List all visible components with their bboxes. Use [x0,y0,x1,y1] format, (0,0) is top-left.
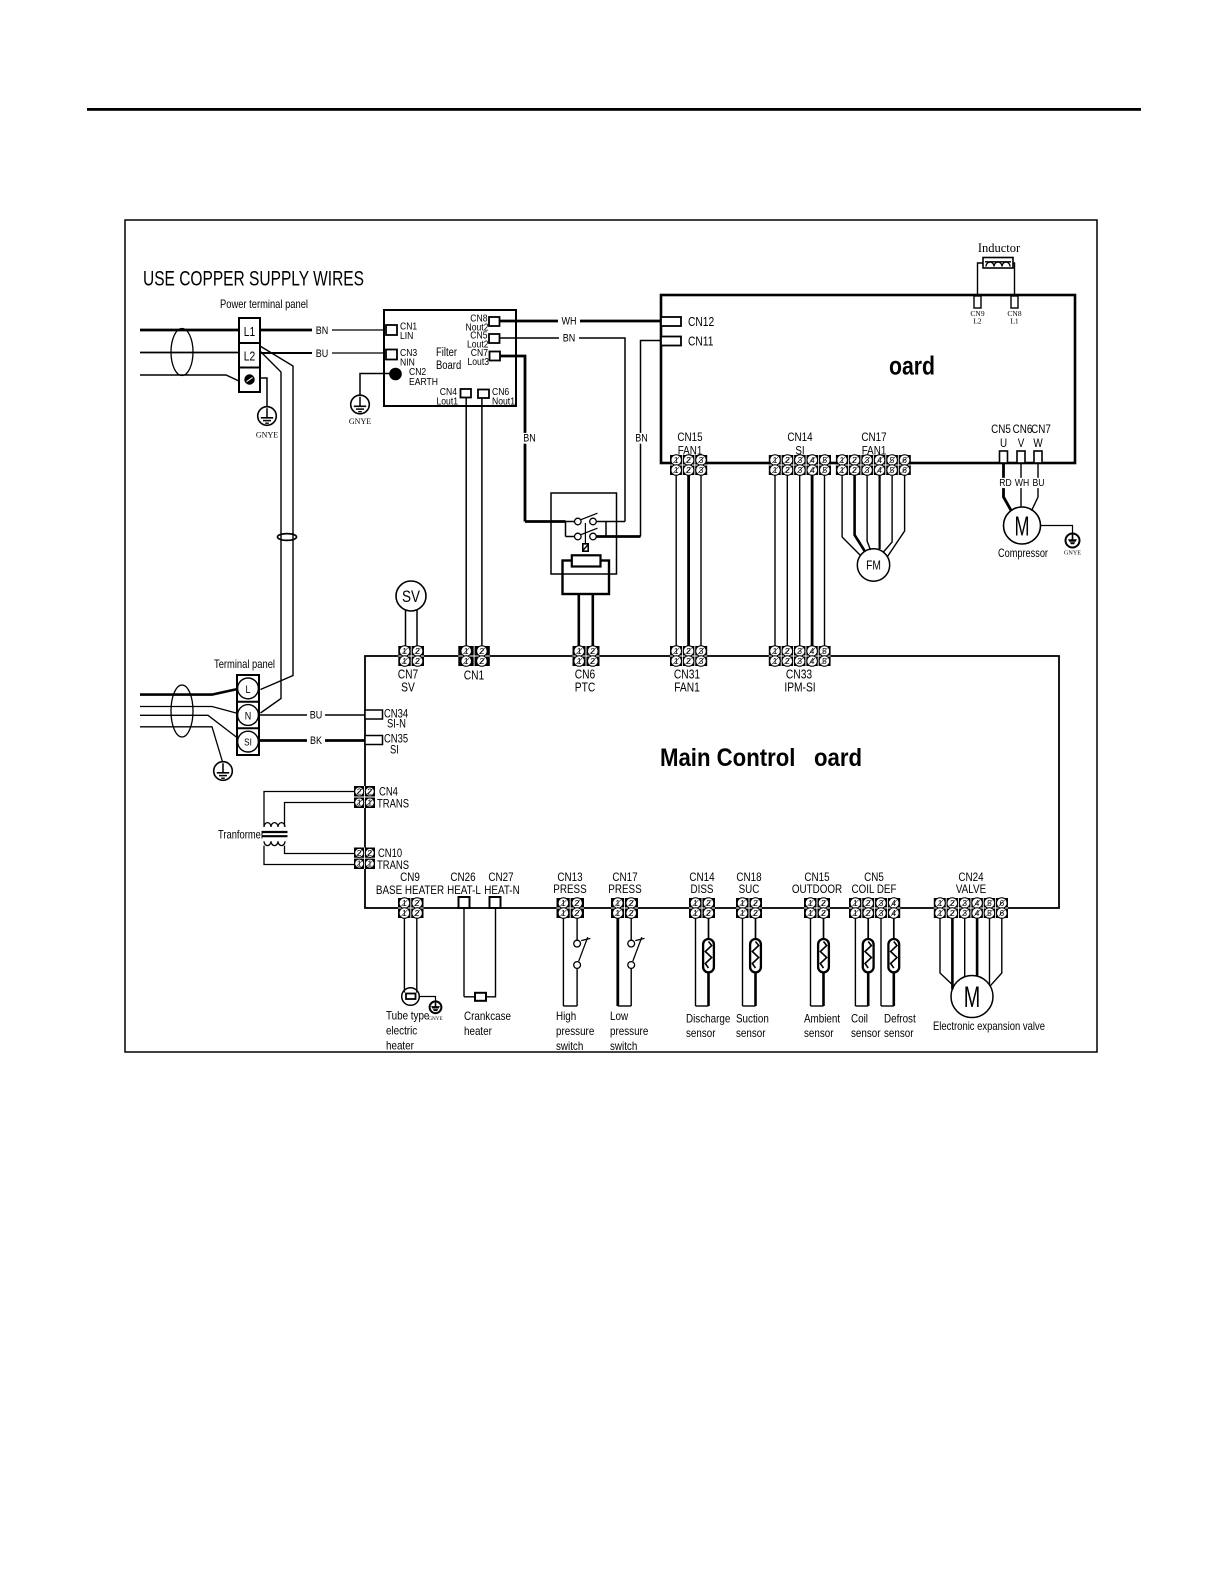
wires CN14 SI to CN33 [775,475,825,646]
connector CN1 [458,646,490,667]
wire CN26 down [463,908,465,997]
svg-text:BN: BN [523,433,536,445]
high pressure switch [563,918,590,1006]
svg-text:3: 3 [879,908,884,918]
svg-text:3: 3 [699,646,704,656]
svg-text:1: 1 [740,908,745,918]
svg-text:4: 4 [810,465,815,475]
svg-text:3: 3 [865,465,870,475]
svg-text:switch: switch [610,1039,637,1053]
svg-text:IPM-SI: IPM-SI [784,681,815,695]
svg-text:3: 3 [962,908,967,918]
svg-text:OUTDOOR: OUTDOOR [792,882,843,896]
svg-text:Tube type: Tube type [386,1009,430,1023]
transformer [218,823,288,846]
svg-text:2: 2 [852,465,857,475]
label tube type electric heater [386,1009,430,1053]
svg-text:2: 2 [415,646,420,656]
svg-text:1: 1 [853,898,858,908]
svg-text:DISS: DISS [691,882,714,896]
connector CN6 Nout1 [478,386,515,408]
svg-text:GNYE: GNYE [428,1016,442,1022]
svg-text:5: 5 [987,908,992,918]
svg-text:1: 1 [853,908,858,918]
svg-text:Suction: Suction [736,1012,769,1026]
svg-text:1: 1 [773,656,778,666]
svg-text:2: 2 [367,848,372,858]
svg-text:3: 3 [962,898,967,908]
svg-text:4: 4 [810,455,815,465]
wire crankcase left [464,996,475,998]
svg-text:Discharge: Discharge [686,1012,731,1026]
label suction sensor [736,1012,769,1041]
suction sensor thermistor [743,918,761,1006]
svg-text:2: 2 [950,908,955,918]
wire tube heater to ground [419,997,435,1002]
connector CN5 Lout2 [467,330,500,351]
svg-text:BU: BU [1033,477,1045,489]
svg-text:BN: BN [635,433,648,445]
svg-text:4: 4 [877,455,882,465]
svg-text:Ambient: Ambient [804,1012,841,1026]
svg-text:Terminal panel: Terminal panel [214,657,275,671]
svg-text:CN11: CN11 [688,335,713,349]
svg-text:CN17: CN17 [861,430,886,444]
svg-text:1: 1 [674,455,679,465]
svg-text:Nout1: Nout1 [492,396,515,408]
svg-text:BN: BN [316,325,329,337]
connector CN24 VALVE [934,898,1008,919]
diagram outer border [125,220,1097,1052]
svg-text:SI: SI [244,738,252,749]
svg-text:1: 1 [840,455,845,465]
wire inductor to CN8 L1 [1013,263,1015,296]
svg-text:sensor: sensor [736,1026,766,1040]
pin CN6 V [1017,451,1025,463]
wire BK SI to CN35 [260,739,366,742]
supply wire L2 [140,352,239,354]
svg-text:1: 1 [561,908,566,918]
svg-text:2: 2 [415,898,420,908]
svg-text:L2: L2 [973,317,982,326]
ground GNYE power panel [256,407,278,440]
svg-text:Lout3: Lout3 [468,356,490,368]
wire compressor to ground [1041,526,1073,534]
svg-text:5: 5 [822,465,827,475]
svg-text:sensor: sensor [851,1026,881,1040]
wires CN17 to fan motor [842,475,905,557]
connector CN3 NIN [386,347,417,369]
svg-text:heater: heater [464,1024,492,1038]
svg-text:4: 4 [975,898,980,908]
connector CN7 Lout3 [468,347,501,368]
svg-text:2: 2 [480,646,485,656]
expansion valve motor M [951,976,993,1018]
svg-text:Board: Board [436,360,461,372]
svg-text:BK: BK [310,735,323,747]
svg-text:HEAT-L: HEAT-L [447,883,481,897]
svg-text:1: 1 [773,455,778,465]
svg-text:2: 2 [785,465,790,475]
svg-text:pressure: pressure [556,1024,595,1038]
svg-text:3: 3 [699,455,704,465]
relay contacts [575,513,598,544]
wire CN2 to ground [360,374,390,396]
svg-text:6: 6 [902,455,907,465]
svg-text:Main Control oard: Main Control oard [660,744,862,772]
wires SV to CN7 [405,610,407,646]
svg-text:SV: SV [402,588,420,606]
svg-text:1: 1 [615,908,620,918]
svg-text:1: 1 [367,859,372,869]
svg-text:Crankcase: Crankcase [464,1009,511,1023]
svg-text:1: 1 [464,656,469,666]
wire BN CN11 to PTC output [641,341,662,537]
svg-text:SV: SV [401,681,415,695]
svg-text:L1: L1 [244,325,255,339]
svg-text:SUC: SUC [739,882,760,896]
connector CN17 FAN1 on IPM board [836,455,911,476]
svg-text:1: 1 [693,908,698,918]
svg-text:Filter: Filter [436,347,457,359]
label coil sensor [851,1012,881,1041]
svg-text:2: 2 [866,908,871,918]
svg-text:electric: electric [386,1024,417,1038]
svg-text:CN6: CN6 [1013,422,1033,436]
svg-text:SI-N: SI-N [387,719,406,731]
discharge sensor thermistor [696,918,714,1006]
svg-text:Coil: Coil [851,1012,868,1026]
svg-text:1: 1 [740,898,745,908]
svg-text:BN: BN [563,333,576,345]
tube type electric heater [402,988,420,1006]
svg-text:W: W [1033,436,1043,450]
svg-text:4: 4 [810,646,815,656]
svg-text:2: 2 [629,908,634,918]
wire crankcase right to CN27 [486,908,496,997]
svg-text:COIL DEF: COIL DEF [852,882,897,896]
svg-text:BASE HEATER: BASE HEATER [376,883,444,897]
connector CN6 PTC [573,646,600,667]
svg-text:1: 1 [808,898,813,908]
relay right bracket [605,522,607,537]
svg-text:4: 4 [975,908,980,918]
svg-text:2: 2 [785,455,790,465]
svg-text:Low: Low [610,1009,628,1023]
connector CN15 FAN1 on IPM board [670,455,707,476]
svg-text:switch: switch [556,1039,583,1053]
svg-text:2: 2 [852,455,857,465]
pin CN5 U [1000,451,1008,463]
ambient sensor thermistor [811,918,829,1006]
wires CN24 to expansion valve [940,918,1002,989]
svg-text:CN15: CN15 [677,430,702,444]
svg-text:U: U [1000,436,1007,450]
crankcase heater element [475,993,486,1001]
svg-text:HEAT-N: HEAT-N [484,883,519,897]
wire BN CN7 Lout3 to PTC [500,356,525,522]
svg-text:1: 1 [615,898,620,908]
svg-text:Tranformer: Tranformer [218,828,264,842]
svg-text:2: 2 [706,908,711,918]
svg-text:L1: L1 [1010,317,1019,326]
svg-text:2: 2 [821,898,826,908]
connector CN33 IPM-SI [769,646,831,667]
svg-text:2: 2 [950,898,955,908]
svg-text:CN6: CN6 [575,668,596,682]
main control board box [365,656,1059,908]
svg-text:WH: WH [562,316,577,328]
svg-text:CN5: CN5 [991,422,1011,436]
lower supply wire 2 [140,707,238,714]
svg-text:GNYE: GNYE [349,417,371,426]
solenoid valve SV [396,581,426,611]
svg-text:3: 3 [699,656,704,666]
label defrost sensor [884,1012,916,1041]
svg-text:4: 4 [877,465,882,475]
svg-text:6: 6 [999,898,1004,908]
svg-text:sensor: sensor [686,1026,716,1040]
IPM board box [661,295,1075,463]
svg-text:1: 1 [674,656,679,666]
connector CN11 [661,335,713,349]
wire BU L2 to filter board [260,352,330,354]
svg-text:L2: L2 [244,350,255,364]
connector CN31 FAN1 [670,646,707,667]
svg-text:1: 1 [773,465,778,475]
svg-text:LIN: LIN [400,330,413,342]
connector CN1 LIN [386,321,417,343]
svg-text:CN9: CN9 [400,870,420,884]
svg-text:GNYE: GNYE [1064,550,1081,557]
connector CN12 [661,315,714,329]
svg-text:2: 2 [629,898,634,908]
wire BN CN5 to PTC relay [500,338,626,522]
svg-text:sensor: sensor [804,1026,834,1040]
svg-text:2: 2 [575,908,580,918]
svg-text:2: 2 [415,908,420,918]
connector CN14 DISS [689,898,715,919]
wire CN4 Lout1 down to CN1 [465,398,467,647]
svg-text:1: 1 [674,646,679,656]
wire BN L1 to filter board [260,329,330,332]
coil sensor thermistor [855,918,873,1006]
svg-text:CN10: CN10 [378,848,402,860]
svg-text:PTC: PTC [575,681,596,695]
svg-text:4: 4 [891,898,896,908]
svg-text:VALVE: VALVE [956,882,986,896]
svg-text:2: 2 [415,656,420,666]
ground GNYE filter board [349,395,371,426]
svg-text:BU: BU [310,710,323,722]
wire WH V to compressor [1020,463,1022,507]
svg-text:2: 2 [686,455,691,465]
svg-text:1: 1 [357,859,362,869]
svg-text:TRANS: TRANS [377,799,409,811]
PTC heater bracket [563,561,610,595]
page top rule [87,108,1141,111]
svg-text:1: 1 [402,656,407,666]
svg-text:CN26: CN26 [450,870,475,884]
svg-text:sensor: sensor [884,1026,914,1040]
svg-text:5: 5 [987,898,992,908]
svg-text:1: 1 [367,798,372,808]
svg-text:1: 1 [357,798,362,808]
connector CN7 SV [398,646,424,667]
inductor [978,241,1021,268]
svg-text:V: V [1018,436,1025,450]
svg-text:CN4: CN4 [379,787,398,799]
svg-text:4: 4 [891,908,896,918]
terminal panel L N SI [237,675,259,755]
svg-text:heater: heater [386,1039,414,1053]
connector CN8 Nout2 [466,313,500,334]
svg-text:2: 2 [357,848,362,858]
svg-text:M: M [964,981,981,1014]
svg-text:3: 3 [699,465,704,475]
svg-text:2: 2 [753,898,758,908]
svg-text:2: 2 [357,787,362,797]
svg-text:3: 3 [798,465,803,475]
supply cable loop [171,329,193,376]
svg-text:2: 2 [590,656,595,666]
filter board [384,310,516,406]
svg-text:6: 6 [902,465,907,475]
svg-text:2: 2 [367,787,372,797]
svg-text:5: 5 [822,455,827,465]
connector CN13 PRESS [557,898,585,919]
svg-text:3: 3 [865,455,870,465]
svg-text:2: 2 [686,646,691,656]
pin CN7 W [1034,451,1042,463]
svg-text:SI: SI [390,745,399,757]
svg-text:2: 2 [590,646,595,656]
ground GNYE compressor [1064,534,1081,557]
pin CN26 [459,897,470,908]
svg-text:EARTH: EARTH [409,376,438,388]
cable run L2 to terminal panel N [260,351,281,713]
wires CN9 to tube heater [403,918,405,993]
svg-text:Lout1: Lout1 [437,396,459,408]
lower supply wire 3 [140,715,238,738]
svg-text:Power terminal panel: Power terminal panel [220,297,308,311]
svg-text:USE COPPER SUPPLY WIRES: USE COPPER SUPPLY WIRES [143,267,364,291]
power terminal panel L1 L2 earth [239,318,260,392]
label ambient sensor [804,1012,841,1041]
labels CN5 CN6 CN7 U V W [991,422,1051,450]
svg-text:1: 1 [577,646,582,656]
svg-text:2: 2 [753,908,758,918]
wire WH CN8 to CN12 [500,320,662,323]
wire RD U to compressor [1004,463,1012,511]
svg-text:BU: BU [316,348,329,360]
svg-text:3: 3 [798,455,803,465]
wire BU N to CN34 [260,714,366,716]
wires transformer secondary to CN10 [285,846,355,854]
svg-text:Defrost: Defrost [884,1012,916,1026]
supply wire earth [140,375,239,381]
svg-text:6: 6 [999,908,1004,918]
svg-text:1: 1 [773,646,778,656]
svg-text:CN7: CN7 [1031,422,1051,436]
compressor motor M [1004,507,1041,544]
svg-text:1: 1 [938,908,943,918]
svg-text:Compressor: Compressor [998,546,1048,560]
svg-text:2: 2 [575,898,580,908]
connector CN15 OUTDOOR [804,898,830,919]
connector CN18 SUC [736,898,762,919]
wire CN6 Nout1 down to CN1 [481,398,483,646]
ground GNYE tube heater [428,1001,442,1022]
wire relay output thick [596,535,640,538]
svg-text:pressure: pressure [610,1024,649,1038]
svg-text:3: 3 [879,898,884,908]
connector CN34 SI-N [365,709,409,731]
connector CN17 PRESS [611,898,638,919]
svg-text:5: 5 [822,656,827,666]
svg-text:CN12: CN12 [688,315,714,329]
connector CN9 BASE HEATER [398,898,424,919]
svg-text:2: 2 [866,898,871,908]
svg-text:CN31: CN31 [674,668,700,682]
defrost sensor thermistor [881,918,899,1006]
svg-text:Inductor: Inductor [978,241,1021,255]
pin CN8 L1 [1007,296,1021,326]
connector CN2 EARTH [390,366,438,388]
connector CN4 Lout1 [437,386,472,408]
wire relay to BN CN5 [606,521,625,523]
svg-text:3: 3 [797,656,802,666]
svg-text:1: 1 [402,646,407,656]
svg-text:1: 1 [674,465,679,475]
pin CN27 [490,897,501,908]
pin CN9 L2 [970,296,984,326]
label high pressure switch [556,1009,595,1053]
svg-text:1: 1 [561,898,566,908]
low pressure switch [618,918,645,1006]
svg-text:PRESS: PRESS [553,882,586,896]
svg-text:Electronic expansion valve: Electronic expansion valve [933,1019,1045,1033]
svg-text:2: 2 [686,465,691,475]
cable run L1 to terminal panel L [260,346,293,690]
ground terminal panel [214,762,233,781]
svg-text:2: 2 [686,656,691,666]
wires PTC to CN6 [577,594,580,646]
svg-text:M: M [1015,511,1030,542]
svg-text:High: High [556,1009,576,1023]
wires CN4 to transformer primary [264,792,354,827]
svg-text:CN7: CN7 [398,668,419,682]
fan motor FM [857,549,889,581]
svg-text:N: N [245,711,252,723]
PTC relay input wire [525,520,566,523]
thermal element [583,544,588,551]
svg-text:5: 5 [890,455,895,465]
svg-text:5: 5 [890,465,895,475]
svg-text:1: 1 [402,898,407,908]
svg-text:5: 5 [822,646,827,656]
wire BU W to compressor [1032,463,1039,511]
wire inductor to CN9 L2 [978,263,984,296]
svg-text:1: 1 [938,898,943,908]
cable tie loop [278,534,297,541]
svg-text:CN33: CN33 [786,668,812,682]
connector CN35 SI [365,734,408,757]
svg-text:2: 2 [821,908,826,918]
svg-text:2: 2 [785,656,790,666]
PTC heater resistor [572,555,601,566]
svg-text:PRESS: PRESS [608,882,641,896]
